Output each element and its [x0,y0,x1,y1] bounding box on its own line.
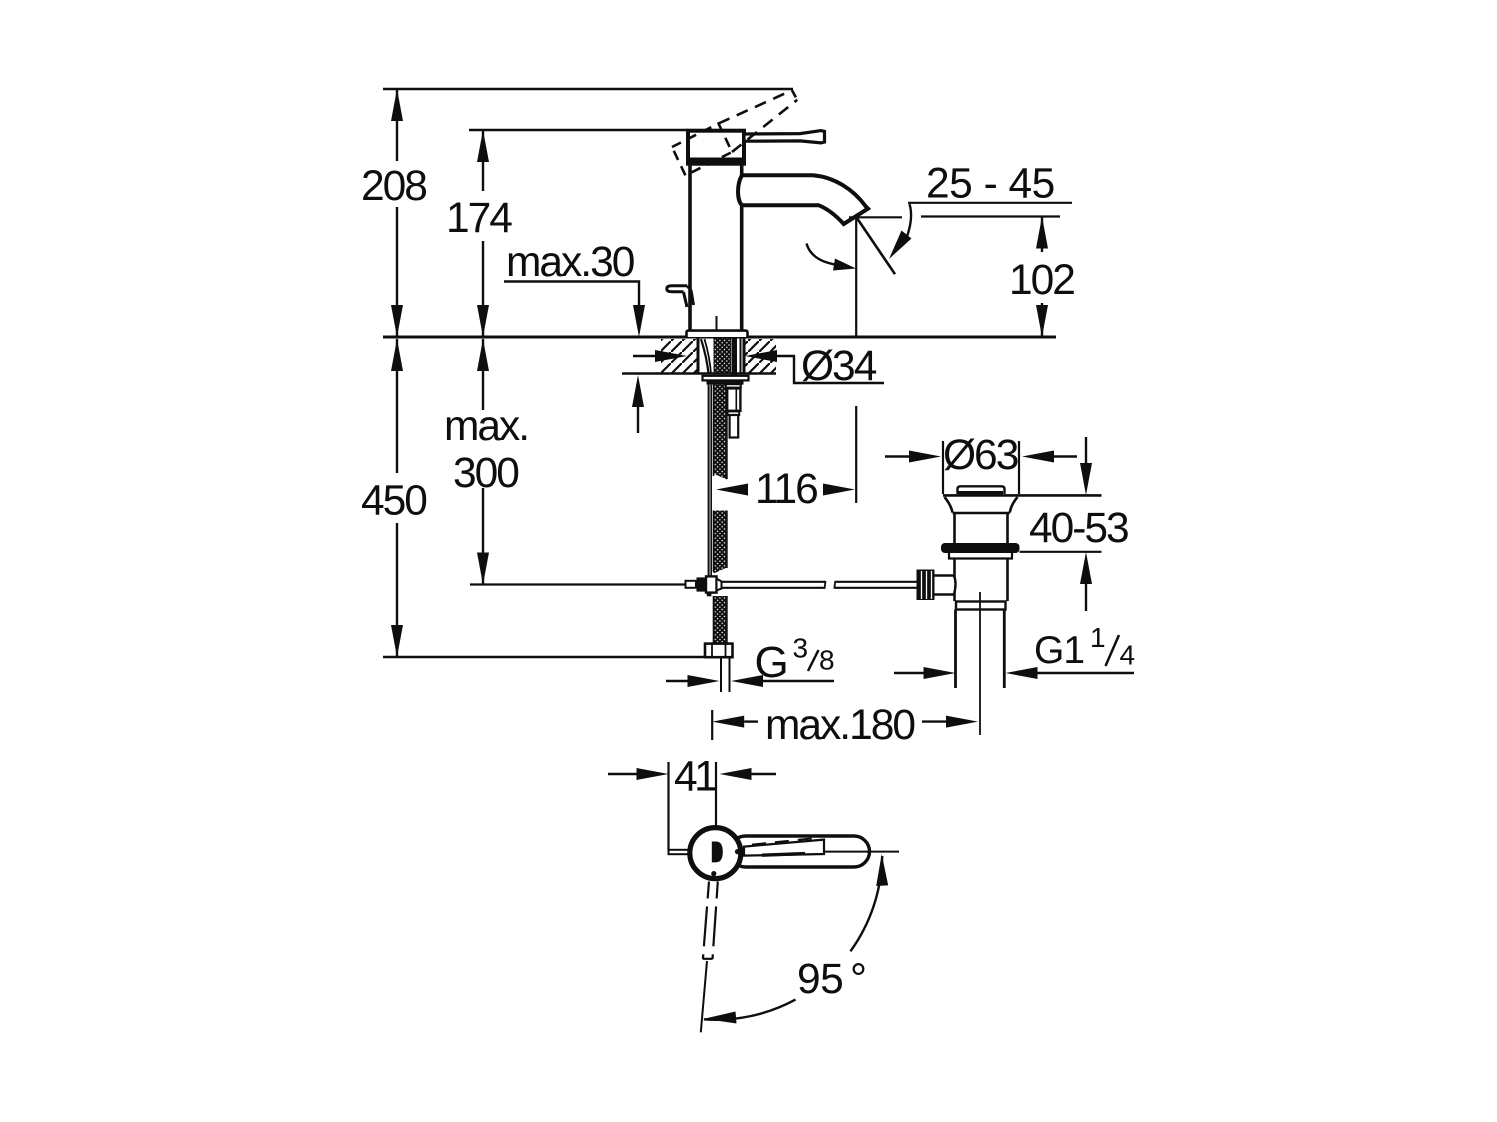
body circle [690,828,741,879]
spout [738,175,868,224]
flow curved arrow [807,244,838,265]
knurled adjusting knob [917,570,935,601]
pull rod above base [716,316,718,331]
svg-text:8: 8 [819,645,835,676]
svg-text:450: 450 [361,478,426,525]
reference line 174 level [469,129,688,131]
counter hatch right [745,339,776,373]
svg-text:41: 41 [674,754,716,801]
dark rod right side of shank [732,339,738,376]
dashed lever line A [719,90,793,123]
waste body lower [953,559,956,602]
drain center line [979,592,981,735]
collar under gasket [949,553,1012,559]
0-deg reference line [824,851,899,853]
plug cap [958,486,1005,494]
svg-text:25 - 45: 25 - 45 [926,161,1055,208]
cartridge hole (D shape) [712,842,723,863]
svg-text:1: 1 [1090,622,1106,653]
svg-text:max.30: max.30 [506,239,634,286]
waste body upper [953,513,956,543]
base plate [687,331,748,337]
outlet level line [849,216,902,218]
dashed handle at 95 deg [703,882,709,960]
lever rod inside capsule [744,840,824,856]
svg-text:3: 3 [793,633,809,664]
faucet lever horizontal (solid) [744,131,825,143]
stream angle diagonal [857,217,896,274]
dashed hidden lines in lever [752,838,820,845]
svg-text:116: 116 [755,466,817,513]
curved pull rod in shank [701,339,709,374]
pull-rod knob (hook on left of body) [667,286,687,292]
braid in shank [714,338,732,374]
svg-text:4: 4 [1120,640,1136,671]
small dots [735,849,740,854]
svg-text:174: 174 [446,195,512,242]
svg-text:max.180: max.180 [765,702,914,749]
coupling ring [956,602,1006,610]
head base black band [686,158,746,165]
bottom reference line (450 level) [383,656,705,658]
svg-text:300: 300 [453,450,518,497]
svg-text:G: G [755,638,789,687]
svg-text:40-53: 40-53 [1029,505,1128,552]
rubber gasket (black) [941,543,1020,553]
pull rod bar (left) [669,850,690,854]
counter top line [383,336,1056,339]
counter bottom line [622,372,776,375]
hose side outlines [713,385,715,476]
svg-text:°: ° [850,956,865,1003]
max.300 bottom reference line [470,583,687,585]
flange sides [945,497,953,513]
95 degree arc [850,856,882,951]
dashed head (raised position) [672,124,732,176]
svg-text:Ø63: Ø63 [943,432,1018,479]
dashed lever end cap [792,90,797,100]
svg-text:max.: max. [444,403,528,450]
dashed lever line B [732,100,797,152]
svg-text:G1: G1 [1034,629,1084,672]
svg-text:102: 102 [1009,257,1074,304]
svg-text:95: 95 [797,956,843,1003]
25-45 leader curve + arrowhead [907,204,911,238]
knob boss [935,576,956,595]
flange top line (also 40-53 top reference) [943,494,1102,497]
svg-text:Ø34: Ø34 [801,343,877,390]
lever capsule [730,836,870,867]
tailpipe [954,610,957,689]
radial extension line 95deg [701,961,707,1032]
svg-text:208: 208 [361,163,426,210]
102 top reference line [921,215,1060,217]
top reference line (208 level) [383,88,793,90]
